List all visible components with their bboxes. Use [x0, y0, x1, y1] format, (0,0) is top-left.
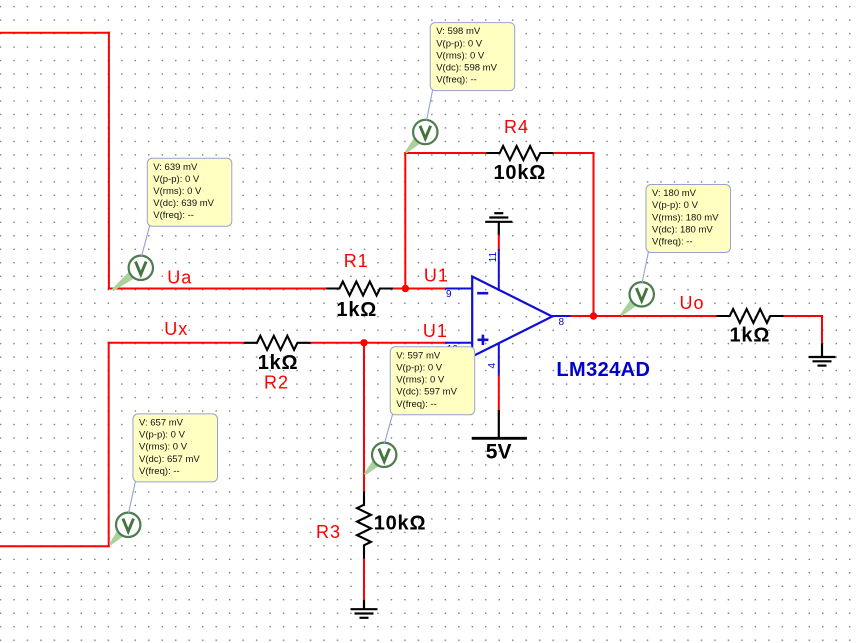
wire Ua net: left vertical drop	[108, 32, 110, 290]
resistor load 1kΩ (output)	[717, 309, 784, 323]
svg-text:10kΩ: 10kΩ	[374, 512, 427, 534]
probe readout box (598 mV)	[430, 23, 515, 91]
svg-text:U1: U1	[423, 321, 448, 341]
svg-text:U1: U1	[424, 266, 449, 286]
voltage probe 1 (Ua): circle with V	[129, 256, 153, 280]
wire Ux net: bottom horizontal from left edge	[0, 545, 110, 547]
5V supply value label	[486, 441, 512, 464]
svg-text:V(rms): 0 V: V(rms): 0 V	[396, 375, 445, 386]
svg-text:5V: 5V	[486, 441, 512, 464]
voltage probe 2 (inverting node): needle	[405, 134, 424, 154]
svg-text:Ua: Ua	[167, 268, 192, 288]
voltage probe 2 (inverting node): circle with V	[413, 120, 437, 144]
svg-text:V(p-p): 0 V: V(p-p): 0 V	[652, 200, 699, 211]
wire right corner down to ground	[821, 316, 823, 345]
wire feedback: R4 to right vertical	[554, 152, 595, 154]
resistor R2 label	[264, 373, 289, 393]
svg-text:V(freq): --: V(freq): --	[396, 399, 437, 410]
op-amp reference U1 (non-inverting input)	[423, 321, 448, 341]
svg-text:V(dc): 639 mV: V(dc): 639 mV	[153, 198, 214, 209]
voltage probe 4 (non-inverting node): circle with V	[372, 443, 396, 467]
resistor R2 value 1kΩ	[258, 352, 299, 374]
probe leader line (657 mV)	[129, 481, 136, 513]
svg-text:11: 11	[488, 251, 499, 262]
probe leader line (180 mV)	[642, 252, 649, 284]
op-amp pin number 4 (rotated)	[487, 363, 498, 369]
svg-text:Ux: Ux	[164, 319, 188, 339]
resistor R3 label	[316, 522, 341, 542]
resistor R1 label	[344, 251, 369, 271]
junction node output	[590, 312, 597, 319]
5V supply bar	[472, 437, 527, 440]
op-amp pin 8 stub (output)	[551, 315, 570, 317]
ground (op-amp pin 11, inverted above)	[485, 213, 512, 235]
wire Ua net: horizontal into R1	[108, 288, 326, 290]
op-amp pin 11 wire to ground (red part)	[498, 235, 500, 251]
ground (output load)	[809, 344, 836, 366]
op-amp part number LM324AD	[556, 359, 650, 381]
svg-text:V: 639 mV: V: 639 mV	[153, 162, 198, 173]
svg-text:R4: R4	[504, 117, 529, 137]
wire load resistor to right corner	[784, 315, 824, 317]
probe readout box (180 mV)	[646, 185, 731, 253]
resistor R4	[487, 146, 554, 160]
svg-text:R1: R1	[344, 251, 369, 271]
op-amp minus sign	[477, 292, 488, 295]
svg-text:V(dc): 597 mV: V(dc): 597 mV	[396, 387, 457, 398]
svg-text:8: 8	[559, 317, 565, 328]
svg-text:V(freq): --: V(freq): --	[153, 210, 194, 221]
wire feedback: horizontal into R4	[404, 152, 486, 154]
svg-text:V(dc): 657 mV: V(dc): 657 mV	[139, 454, 200, 465]
svg-text:V: 657 mV: V: 657 mV	[139, 418, 184, 429]
wire Ux net: horizontal into R2	[108, 342, 244, 344]
resistor R3 value 10kΩ	[374, 512, 427, 534]
svg-text:V(p-p): 0 V: V(p-p): 0 V	[436, 38, 483, 49]
svg-text:Uo: Uo	[680, 293, 705, 313]
svg-text:V(rms): 0 V: V(rms): 0 V	[139, 442, 188, 453]
op-amp pin 9 stub (inverting input)	[445, 288, 472, 290]
svg-text:V: 180 mV: V: 180 mV	[652, 188, 697, 199]
svg-text:V(freq): --: V(freq): --	[652, 237, 693, 248]
svg-text:1kΩ: 1kΩ	[258, 352, 299, 374]
svg-text:V: 598 mV: V: 598 mV	[436, 26, 481, 37]
op-amp pin number 11 (rotated)	[488, 251, 499, 262]
svg-text:V(freq): --: V(freq): --	[436, 75, 477, 86]
svg-text:R2: R2	[264, 373, 289, 393]
probe readout box (639 mV)	[147, 158, 232, 226]
op-amp pin 4 stub (blue)	[498, 344, 500, 377]
resistor R2	[244, 336, 311, 350]
svg-text:9: 9	[446, 289, 452, 300]
svg-text:V(rms): 0 V: V(rms): 0 V	[153, 186, 202, 197]
svg-text:V(dc): 598 mV: V(dc): 598 mV	[436, 63, 497, 74]
svg-text:V(rms): 180 mV: V(rms): 180 mV	[652, 212, 719, 223]
probe leader line (639 mV)	[142, 225, 150, 256]
voltage probe 1 (Ua): needle	[112, 268, 138, 291]
wire output node to load resistor	[570, 315, 718, 317]
svg-text:4: 4	[487, 363, 498, 369]
wire R2 right lead to non-inverting input	[311, 342, 448, 344]
svg-text:1kΩ: 1kΩ	[730, 325, 771, 347]
svg-text:V(rms): 0 V: V(rms): 0 V	[436, 50, 485, 61]
svg-text:V: 597 mV: V: 597 mV	[396, 350, 441, 361]
resistor R4 value 10kΩ	[494, 162, 547, 184]
net label Uo	[680, 293, 705, 313]
probe leader line (598 mV)	[427, 90, 433, 121]
svg-text:10kΩ: 10kΩ	[494, 162, 547, 184]
net label Ux	[164, 319, 188, 339]
svg-text:V(freq): --: V(freq): --	[139, 466, 180, 477]
svg-text:V(p-p): 0 V: V(p-p): 0 V	[153, 174, 200, 185]
voltage probe 3 (output): needle	[620, 296, 640, 316]
op-amp plus sign	[478, 335, 489, 345]
probe leader line (597 mV)	[385, 414, 393, 444]
svg-text:V(p-p): 0 V: V(p-p): 0 V	[396, 363, 443, 374]
wire feedback: right vertical down to output node	[593, 152, 595, 317]
resistor R1	[326, 282, 393, 296]
5V supply lead (black)	[498, 410, 500, 438]
ground (below R3)	[351, 600, 378, 618]
wire feedback: vertical from node A up	[404, 152, 406, 289]
junction node A (R1 / feedback)	[402, 285, 409, 292]
net label Ua	[167, 268, 192, 288]
wire R3 bottom to ground	[363, 559, 365, 602]
resistor R4 label	[504, 117, 529, 137]
op-amp pin number 8	[559, 317, 565, 328]
voltage probe 4 (non-inverting node): needle	[364, 456, 383, 475]
op-amp pin 10 stub (non-inverting input)	[445, 342, 472, 344]
svg-text:V(dc): 180 mV: V(dc): 180 mV	[652, 224, 713, 235]
wire R1 right lead to inverting input	[393, 288, 447, 290]
op-amp pin 4 wire to 5V (red part)	[498, 376, 500, 412]
op-amp pin 11 stub (blue)	[498, 249, 500, 291]
svg-text:1kΩ: 1kΩ	[336, 299, 377, 321]
voltage probe 5 (Ux): circle with V	[116, 513, 140, 537]
op-amp reference U1 (inverting input)	[424, 266, 449, 286]
op-amp pin number 10	[447, 344, 459, 355]
resistor R1 value 1kΩ	[336, 299, 377, 321]
op-amp pin number 9	[446, 289, 452, 300]
op-amp U1 triangle	[472, 277, 552, 357]
svg-text:LM324AD: LM324AD	[556, 359, 650, 381]
resistor R3 (vertical)	[357, 492, 371, 559]
svg-text:R3: R3	[316, 522, 341, 542]
svg-text:V(p-p): 0 V: V(p-p): 0 V	[139, 430, 186, 441]
probe readout box (597 mV)	[390, 347, 475, 415]
voltage probe 3 (output): circle with V	[630, 282, 654, 306]
voltage probe 5 (Ux): needle	[109, 527, 127, 546]
wire node B down to R3	[363, 343, 365, 493]
wire Ua net: top horizontal from left edge	[0, 32, 110, 34]
wire Ux net: left vertical rise	[108, 342, 110, 547]
probe readout box (657 mV)	[133, 414, 218, 482]
resistor load value 1kΩ	[730, 325, 771, 347]
junction node B (R2 / R3)	[360, 339, 367, 346]
